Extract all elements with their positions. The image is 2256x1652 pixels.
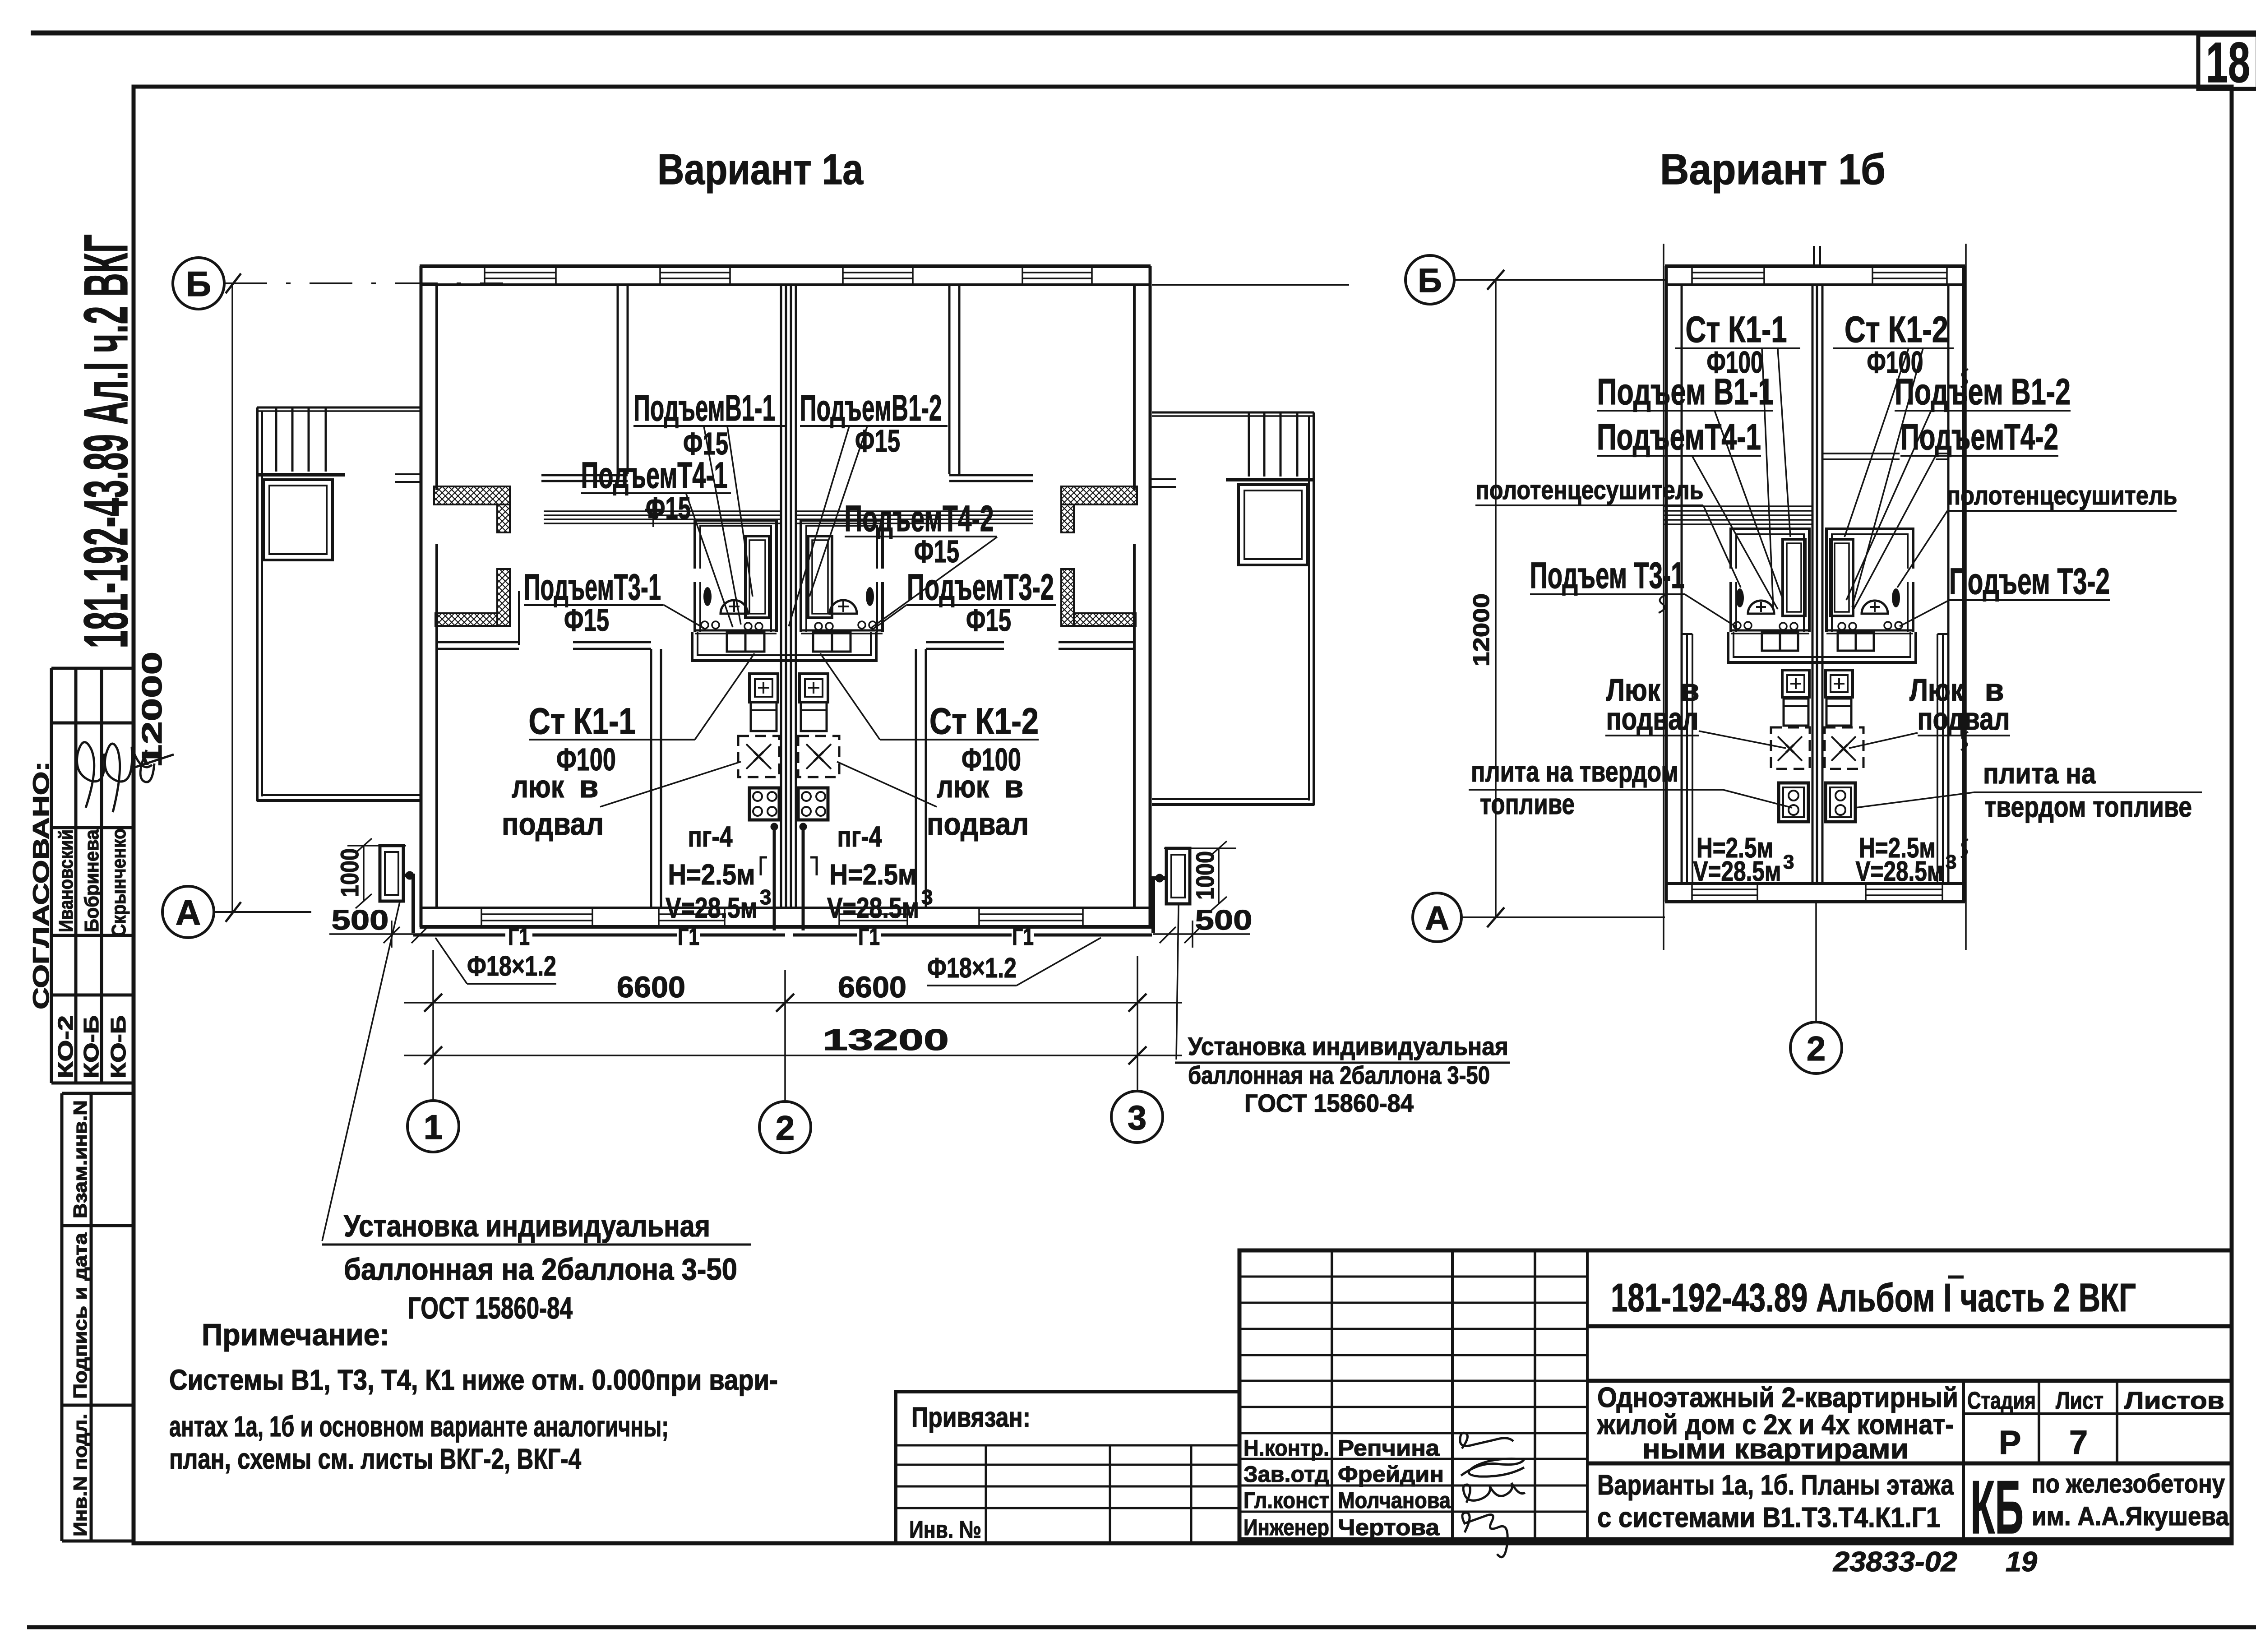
axis Б circle plan1a bbox=[173, 258, 224, 309]
svg-text:V=28.5м: V=28.5м bbox=[827, 892, 919, 924]
svg-text:Г1: Г1 bbox=[858, 923, 880, 950]
axis 2 line below plan1b bbox=[1815, 902, 1817, 1022]
svg-text:с системами В1.Т3.Т4.К1.Г1: с системами В1.Т3.Т4.К1.Г1 bbox=[1597, 1502, 1940, 1533]
svg-text:ПодъемВ1-2: ПодъемВ1-2 bbox=[800, 388, 942, 429]
toilet left apt plan1a bbox=[721, 600, 748, 614]
wing left tambour plan1a bbox=[264, 480, 333, 560]
svg-text:Подпись и дата: Подпись и дата bbox=[69, 1232, 91, 1399]
riser dot right apt plan1a bbox=[866, 587, 874, 606]
gas stove ПГ-4 right plan1a bbox=[798, 788, 828, 820]
wing right walls plan1a bbox=[1152, 412, 1314, 805]
left wall plan1b bbox=[1666, 266, 1682, 902]
gas line Г1 below plan1a bbox=[413, 934, 1152, 937]
svg-text:ПодъемТ4-1: ПодъемТ4-1 bbox=[581, 455, 728, 496]
svg-text:Лист: Лист bbox=[2056, 1387, 2103, 1414]
svg-text:Привязан:: Привязан: bbox=[911, 1402, 1031, 1433]
svg-text:18: 18 bbox=[2206, 31, 2250, 94]
toilet left apt plan1b bbox=[1748, 601, 1774, 614]
dim 500 left plan1a bbox=[329, 921, 428, 948]
svg-text:Ст К1-2: Ст К1-2 bbox=[1845, 309, 1948, 350]
dim 1000 left plan1a bbox=[347, 838, 406, 908]
bottom wall plan1b bbox=[1665, 884, 1965, 902]
axis А line plan1a bbox=[214, 911, 311, 913]
svg-text:Ф15: Ф15 bbox=[646, 491, 691, 526]
svg-text:V=28.5м: V=28.5м bbox=[666, 892, 758, 924]
svg-text:3: 3 bbox=[760, 885, 772, 909]
svg-text:план, схемы см. листы ВКГ-2, В: план, схемы см. листы ВКГ-2, ВКГ-4 bbox=[169, 1443, 581, 1475]
wing right stairs plan1a bbox=[1226, 413, 1313, 480]
svg-text:Н=2.5м: Н=2.5м bbox=[830, 858, 917, 891]
wing left stairs plan1a bbox=[258, 408, 345, 475]
svg-text:Ст К1-1: Ст К1-1 bbox=[529, 701, 636, 742]
right wall plan1b bbox=[1948, 266, 1964, 902]
svg-text:ПодъемВ1-1: ПодъемВ1-1 bbox=[633, 388, 775, 429]
svg-text:в: в bbox=[1004, 769, 1023, 804]
top windows plan1a bbox=[485, 266, 1092, 285]
pipe circles left apt plan1b bbox=[1734, 622, 1798, 630]
svg-text:1: 1 bbox=[424, 1108, 443, 1147]
svg-text:Н.контр.: Н.контр. bbox=[1244, 1435, 1329, 1461]
svg-text:ГОСТ 15860-84: ГОСТ 15860-84 bbox=[1244, 1089, 1414, 1117]
dim ticks 6600 plan1a bbox=[424, 994, 1146, 1012]
svg-text:плита на: плита на bbox=[1983, 757, 2096, 790]
party wall plan1a bbox=[781, 285, 796, 908]
extension line right plan1b bbox=[1965, 244, 1967, 950]
svg-text:181-192-43.89 Альбом I часть: 181-192-43.89 Альбом I часть 2 ВКГ bbox=[1611, 1275, 2136, 1320]
sheet top edge line bbox=[31, 31, 2256, 36]
riser dot right apt plan1b bbox=[1892, 588, 1900, 607]
svg-text:3: 3 bbox=[1946, 851, 1956, 873]
bathtub left apt plan1b bbox=[1783, 539, 1805, 616]
svg-text:ПодъемТ4-2: ПодъемТ4-2 bbox=[845, 498, 994, 539]
lower sidebar table bbox=[62, 1093, 134, 1541]
sink right apt plan1a bbox=[813, 633, 851, 652]
svg-text:люк: люк bbox=[937, 769, 989, 804]
title block left grid verticals bbox=[1332, 1250, 1587, 1539]
svg-text:2: 2 bbox=[1807, 1030, 1826, 1068]
basement hatch dashed left plan1b bbox=[1771, 727, 1810, 769]
dim 1000 right plan1a bbox=[1164, 841, 1236, 911]
break mark right extension 2 plan1b bbox=[1961, 732, 1968, 750]
svg-text:Ивановский: Ивановский bbox=[55, 829, 77, 932]
sink right apt plan1b bbox=[1838, 633, 1874, 651]
svg-text:ПодъемТ3-1: ПодъемТ3-1 bbox=[524, 567, 661, 608]
washstand left apt plan1a bbox=[749, 674, 778, 731]
sidebar approval table bbox=[51, 668, 134, 1083]
svg-text:Системы В1, Т3, Т4, К1 ниже о: Системы В1, Т3, Т4, К1 ниже отм. 0.000пр… bbox=[169, 1364, 778, 1396]
svg-text:500: 500 bbox=[1195, 905, 1253, 936]
dim extension lines plan1a bbox=[433, 950, 1137, 1101]
wing left walls plan1a bbox=[257, 407, 420, 801]
title block right separators bbox=[1587, 1324, 2232, 1328]
riser dot left apt plan1a bbox=[703, 587, 712, 606]
svg-text:Подъем Т3-2: Подъем Т3-2 bbox=[1949, 561, 2110, 602]
separator above variants row bbox=[1587, 1462, 2232, 1466]
lower room walls right apt plan1a bbox=[916, 642, 1134, 908]
axis continuation right of plan1a bbox=[1152, 284, 1349, 286]
party wall plan1b bbox=[1812, 285, 1822, 884]
break mark right extension 3 plan1b bbox=[1961, 839, 1968, 857]
svg-text:Г1: Г1 bbox=[508, 923, 530, 950]
svg-text:баллонная на 2баллона 3-50: баллонная на 2баллона 3-50 bbox=[1188, 1061, 1490, 1089]
svg-text:Инв.N подл.: Инв.N подл. bbox=[69, 1414, 91, 1536]
svg-text:Р: Р bbox=[1999, 1424, 2021, 1461]
dim line 6600-6600 plan1a bbox=[404, 1002, 1182, 1004]
approval signatures bbox=[77, 742, 174, 812]
signatures in title block bbox=[1460, 1433, 1525, 1557]
svg-text:Инв. №: Инв. № bbox=[909, 1516, 981, 1543]
title block left grid rows bbox=[1239, 1277, 1587, 1512]
axis circle 2 plan1a bbox=[759, 1101, 811, 1153]
svg-text:пг-4: пг-4 bbox=[688, 820, 733, 853]
bathroom lower wall plan1b bbox=[1728, 632, 1916, 662]
bathroom right apt plan1b bbox=[1826, 529, 1913, 634]
axis Б tick plan1a bbox=[226, 273, 241, 293]
svg-text:Репчина: Репчина bbox=[1338, 1435, 1440, 1461]
svg-text:баллонная на 2баллона 3-50: баллонная на 2баллона 3-50 bbox=[344, 1252, 737, 1286]
svg-text:Ф18×1.2: Ф18×1.2 bbox=[467, 951, 556, 982]
axis А circle plan1a bbox=[162, 886, 214, 938]
axis circle 2 plan1b bbox=[1790, 1022, 1842, 1074]
svg-text:ПодъемТ3-2: ПодъемТ3-2 bbox=[907, 567, 1054, 608]
top wall plan1b bbox=[1665, 266, 1965, 285]
svg-text:полотенцесушитель: полотенцесушитель bbox=[1947, 481, 2177, 510]
toilet right apt plan1b bbox=[1862, 601, 1888, 614]
svg-text:Вариант 1а: Вариант 1а bbox=[657, 145, 864, 194]
leader lines cluster plan1a bbox=[600, 426, 997, 807]
overbar over Roman I bbox=[1948, 1276, 1964, 1279]
axis circle 3 plan1a bbox=[1111, 1091, 1163, 1143]
bottom windows plan1a bbox=[481, 908, 1083, 927]
svg-text:Бобринева: Бобринева bbox=[81, 829, 103, 932]
svg-text:Б: Б bbox=[1418, 262, 1442, 299]
svg-text:12000: 12000 bbox=[137, 652, 168, 768]
svg-text:Подъем Т3-1: Подъем Т3-1 bbox=[1530, 555, 1685, 596]
svg-text:12000: 12000 bbox=[1469, 593, 1494, 666]
svg-text:А: А bbox=[176, 893, 201, 932]
gas pipe left plan1a bbox=[761, 823, 778, 930]
sheet bottom edge line bbox=[27, 1625, 2256, 1629]
svg-text:подвал: подвал bbox=[1918, 701, 2010, 736]
svg-text:Молчанова: Молчанова bbox=[1338, 1488, 1451, 1513]
svg-text:3: 3 bbox=[1783, 851, 1794, 873]
toilet right apt plan1a bbox=[830, 600, 857, 614]
main right wall plan1a bbox=[1134, 266, 1150, 927]
main top wall plan1a bbox=[420, 266, 1151, 285]
wing left door stub plan1a bbox=[395, 474, 421, 482]
svg-text:в: в bbox=[579, 769, 598, 804]
svg-text:КО-2: КО-2 bbox=[54, 1015, 77, 1078]
svg-text:ПодъемТ4-2: ПодъемТ4-2 bbox=[1900, 416, 2058, 458]
bathroom left apt plan1a bbox=[695, 520, 777, 634]
svg-text:по железобетону: по железобетону bbox=[2032, 1469, 2225, 1499]
wing right tambour plan1a bbox=[1239, 485, 1308, 565]
svg-text:Вариант 1б: Вариант 1б bbox=[1660, 145, 1886, 194]
svg-text:им. А.А.Якушева: им. А.А.Якушева bbox=[2032, 1502, 2229, 1531]
wing right door stub plan1a bbox=[1150, 479, 1176, 487]
towel rail lines plan1b bbox=[1664, 506, 1812, 524]
axis Б tick plan1b bbox=[1487, 270, 1504, 290]
towel rail lines right plan1a bbox=[796, 511, 1033, 523]
svg-text:1000: 1000 bbox=[335, 848, 364, 897]
gas stove ПГ-4 left plan1a bbox=[749, 788, 779, 820]
interior top wall right apt plan1b bbox=[1822, 453, 1948, 459]
towel rail lines left plan1a bbox=[544, 511, 781, 523]
svg-text:Стадия: Стадия bbox=[1967, 1387, 2036, 1414]
interior divider left apt plan1a bbox=[541, 285, 628, 481]
svg-text:подвал: подвал bbox=[502, 806, 604, 842]
svg-text:Фрейдин: Фрейдин bbox=[1338, 1462, 1444, 1487]
svg-text:подвал: подвал bbox=[1606, 701, 1699, 736]
solid fuel stove left plan1b bbox=[1779, 783, 1808, 822]
svg-text:3: 3 bbox=[1128, 1099, 1146, 1137]
svg-text:подвал: подвал bbox=[927, 806, 1029, 842]
svg-text:плита на твердом: плита на твердом bbox=[1471, 755, 1678, 788]
dim line 12000 plan1a bbox=[231, 283, 233, 912]
columns Стадия Лист Листов bbox=[1964, 1381, 2232, 1539]
washstand right apt plan1b bbox=[1826, 670, 1853, 726]
svg-text:пг-4: пг-4 bbox=[837, 820, 882, 853]
svg-text:Примечание:: Примечание: bbox=[202, 1318, 389, 1352]
vent stub above top wall plan1b bbox=[1814, 246, 1820, 266]
bottom windows plan1b bbox=[1692, 884, 1942, 902]
gas pipe right plan1a bbox=[800, 823, 817, 930]
bathtub left apt plan1a bbox=[745, 536, 769, 618]
svg-text:Г1: Г1 bbox=[1012, 923, 1034, 950]
svg-text:Н=2.5м: Н=2.5м bbox=[668, 858, 755, 891]
axis А tick plan1a bbox=[226, 902, 241, 922]
solid fuel stove right plan1b bbox=[1826, 783, 1855, 822]
svg-text:А: А bbox=[1425, 899, 1449, 937]
svg-text:Установка индивидуальная: Установка индивидуальная bbox=[344, 1209, 710, 1243]
washstand left apt plan1b bbox=[1782, 670, 1809, 726]
bathroom left apt plan1b bbox=[1731, 529, 1809, 634]
bathtub right apt plan1a bbox=[808, 536, 832, 618]
extension line left plan1b bbox=[1663, 244, 1664, 950]
gas cylinder right plan1a bbox=[1153, 848, 1190, 933]
svg-text:антах 1а, 1б и основном вариан: антах 1а, 1б и основном варианте аналоги… bbox=[169, 1410, 669, 1443]
svg-text:13200: 13200 bbox=[823, 1023, 949, 1056]
svg-text:3: 3 bbox=[921, 885, 933, 909]
leader to cylinder left plan1a bbox=[322, 902, 400, 1241]
pipe circles right apt plan1b bbox=[1838, 622, 1902, 630]
svg-text:КО-Б: КО-Б bbox=[79, 1015, 103, 1078]
main left wall plan1a bbox=[421, 266, 437, 927]
bathroom right apt plan1a bbox=[801, 520, 883, 634]
axis А line plan1b bbox=[1461, 916, 1665, 918]
pipe circles right apt plan1a bbox=[815, 621, 876, 630]
interior closet walls plan1b bbox=[1682, 634, 1948, 884]
title block outer bbox=[1239, 1250, 2232, 1539]
hatched walls left plan1a bbox=[434, 486, 510, 626]
svg-text:КО-Б: КО-Б bbox=[106, 1015, 130, 1078]
basement hatch dashed right plan1b bbox=[1825, 727, 1863, 769]
wall stub left plan1a bbox=[518, 591, 520, 645]
svg-text:19: 19 bbox=[2006, 1546, 2038, 1578]
svg-text:Ст К1-1: Ст К1-1 bbox=[1686, 309, 1787, 350]
svg-text:Взам.инв.N: Взам.инв.N bbox=[69, 1100, 91, 1218]
svg-text:Скрынченко: Скрынченко bbox=[108, 828, 130, 937]
svg-text:КБ: КБ bbox=[1970, 1465, 2024, 1550]
svg-text:Варианты 1а, 1б. Планы этажа: Варианты 1а, 1б. Планы этажа bbox=[1597, 1470, 1954, 1501]
sheet number box bbox=[2198, 35, 2256, 89]
svg-text:7: 7 bbox=[2069, 1424, 2088, 1461]
svg-text:Ф15: Ф15 bbox=[564, 602, 609, 638]
riser dot left apt plan1b bbox=[1736, 588, 1744, 607]
leader lines plan1b bbox=[1685, 348, 1974, 808]
svg-text:Подъем В1-2: Подъем В1-2 bbox=[1895, 371, 2071, 412]
svg-text:500: 500 bbox=[332, 905, 389, 936]
axis Б dash line plan1a bbox=[224, 282, 503, 284]
axis А tick plan1b bbox=[1487, 907, 1504, 927]
dim line 12000 plan1b bbox=[1495, 280, 1497, 917]
top windows plan1b bbox=[1692, 266, 1947, 285]
break mark on left extension plan1b bbox=[1659, 595, 1666, 613]
break mark right extension 1 plan1b bbox=[1961, 369, 1968, 387]
svg-text:Б: Б bbox=[186, 264, 211, 304]
sink left apt plan1b bbox=[1762, 633, 1798, 651]
svg-text:ПодъемТ4-1: ПодъемТ4-1 bbox=[1597, 416, 1761, 458]
bathtub right apt plan1b bbox=[1831, 539, 1853, 616]
svg-text:ГОСТ 15860-84: ГОСТ 15860-84 bbox=[408, 1291, 573, 1325]
svg-text:Подъем В1-1: Подъем В1-1 bbox=[1597, 371, 1774, 412]
lower room walls left apt plan1a bbox=[437, 642, 661, 908]
привязан box bbox=[896, 1392, 1239, 1543]
svg-text:полотенцесушитель: полотенцесушитель bbox=[1476, 476, 1704, 505]
sink left apt plan1a bbox=[727, 633, 764, 652]
interior divider right apt plan1a bbox=[949, 285, 1033, 481]
svg-text:23833-02: 23833-02 bbox=[1833, 1546, 1957, 1578]
gas cylinder left plan1a bbox=[380, 846, 414, 933]
svg-text:6600: 6600 bbox=[617, 970, 685, 1004]
svg-text:2: 2 bbox=[776, 1109, 795, 1148]
svg-text:6600: 6600 bbox=[838, 970, 906, 1004]
axis А circle plan1b bbox=[1413, 893, 1461, 942]
svg-text:твердом топливе: твердом топливе bbox=[1984, 791, 2192, 823]
dim 500 right plan1a bbox=[1153, 921, 1250, 948]
svg-text:Г1: Г1 bbox=[678, 923, 699, 950]
bathroom lower wall plan1a bbox=[692, 632, 876, 661]
basement hatch dashed right plan1a bbox=[798, 736, 839, 777]
axis circle 1 plan1a bbox=[407, 1101, 459, 1152]
leader to cylinder right plan1a bbox=[1176, 905, 1179, 1060]
svg-text:Установка индивидуальная: Установка индивидуальная bbox=[1188, 1032, 1508, 1060]
svg-text:люк: люк bbox=[512, 769, 564, 804]
привязан grid bbox=[896, 1445, 1239, 1543]
svg-text:1000: 1000 bbox=[1191, 851, 1219, 900]
svg-text:Ст К1-2: Ст К1-2 bbox=[929, 701, 1039, 742]
washstand right apt plan1a bbox=[800, 674, 828, 731]
svg-text:Чертова: Чертова bbox=[1338, 1515, 1440, 1540]
hatched walls right plan1a bbox=[1061, 486, 1137, 626]
dim ticks 13200 plan1a bbox=[424, 1046, 1146, 1064]
axis Б circle plan1b bbox=[1405, 255, 1454, 304]
svg-text:топливе: топливе bbox=[1480, 788, 1575, 820]
svg-text:Гл.конст: Гл.конст bbox=[1244, 1488, 1329, 1513]
svg-text:Одноэтажный 2-квартирный: Одноэтажный 2-квартирный bbox=[1597, 1382, 1958, 1413]
basement hatch dashed left plan1a bbox=[738, 736, 779, 777]
svg-text:Ф15: Ф15 bbox=[914, 534, 959, 569]
svg-text:Зав.отд: Зав.отд bbox=[1244, 1462, 1329, 1487]
dim line 13200 plan1a bbox=[404, 1055, 1182, 1056]
axis Б line plan1b bbox=[1454, 279, 1665, 281]
riser symbol T4-1 plan1a bbox=[645, 500, 661, 527]
main bottom wall plan1a bbox=[420, 908, 1152, 927]
svg-text:181-192-43.89 Ал.I ч.2 ВКГ: 181-192-43.89 Ал.I ч.2 ВКГ bbox=[71, 234, 141, 648]
svg-text:Листов: Листов bbox=[2124, 1387, 2224, 1414]
pipe circles left apt plan1a bbox=[701, 621, 763, 630]
svg-text:V=28.5м: V=28.5м bbox=[1693, 856, 1781, 887]
svg-text:Инженер: Инженер bbox=[1244, 1515, 1329, 1540]
svg-text:ными квартирами: ными квартирами bbox=[1642, 1434, 1909, 1465]
svg-text:V=28.5м: V=28.5м bbox=[1856, 856, 1944, 887]
svg-text:Ф15: Ф15 bbox=[855, 423, 900, 458]
svg-text:Ф15: Ф15 bbox=[966, 602, 1011, 638]
svg-text:Ф18×1.2: Ф18×1.2 bbox=[927, 953, 1017, 984]
